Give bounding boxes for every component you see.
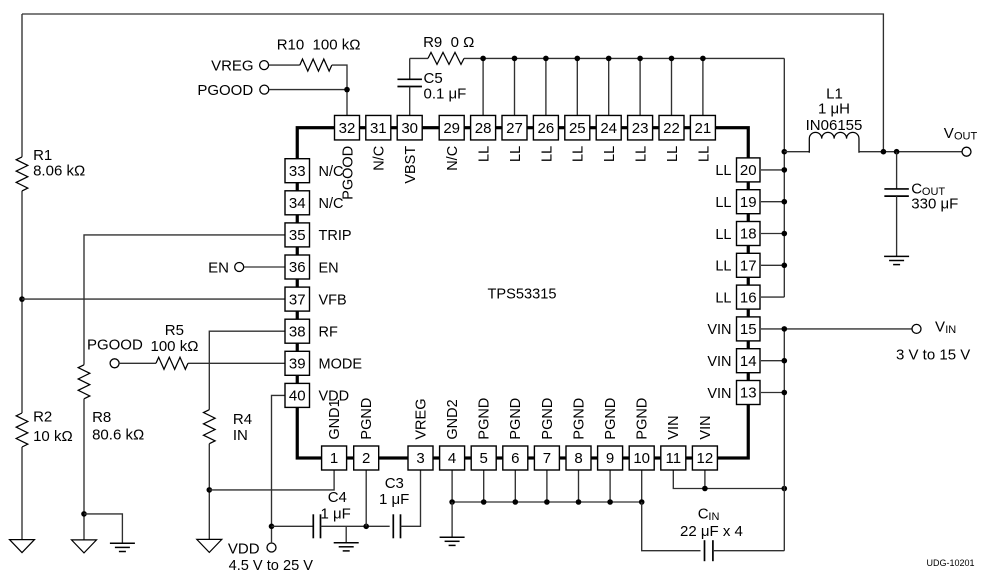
pin 6 PGND (bottom row) bbox=[503, 398, 528, 470]
svg-text:6: 6 bbox=[511, 450, 519, 467]
pin 35 TRIP (left column) bbox=[285, 223, 352, 247]
svg-text:GND2: GND2 bbox=[445, 399, 461, 439]
svg-text:C5: C5 bbox=[424, 70, 443, 87]
svg-text:LL: LL bbox=[696, 146, 712, 162]
svg-text:N/C: N/C bbox=[319, 164, 344, 180]
svg-text:14: 14 bbox=[740, 353, 757, 370]
ground bar-style between C4 and C3 bbox=[345, 526, 347, 542]
svg-text:LL: LL bbox=[715, 195, 731, 211]
svg-text:1: 1 bbox=[330, 450, 338, 467]
svg-text:33: 33 bbox=[289, 163, 306, 180]
pin 23 LL (top row) bbox=[628, 115, 653, 161]
svg-text:4.5 V to 25 V: 4.5 V to 25 V bbox=[229, 558, 314, 574]
pin 7 PGND (bottom row) bbox=[534, 398, 559, 470]
svg-text:40: 40 bbox=[289, 388, 306, 405]
wire left rail R1/R2 divider (VFB net) bbox=[21, 14, 23, 157]
wire pin 5 drop to PGND bus bbox=[483, 470, 485, 502]
svg-text:8: 8 bbox=[574, 450, 582, 467]
svg-text:N/C: N/C bbox=[319, 196, 344, 212]
node LL bus junction pin 25 bbox=[575, 56, 581, 62]
wire PGOOD terminal to pin 32 net bbox=[269, 89, 347, 91]
svg-text:VIN: VIN bbox=[707, 322, 731, 338]
svg-text:C: C bbox=[698, 506, 709, 523]
wire L1 to VOUT terminal bbox=[859, 151, 962, 153]
svg-text:LL: LL bbox=[477, 146, 493, 162]
terminal PGOOD (top left) bbox=[260, 85, 269, 94]
svg-text:PGOOD: PGOOD bbox=[87, 337, 143, 354]
svg-text:23: 23 bbox=[632, 120, 649, 137]
node PGND bus junction pin 6 bbox=[513, 499, 519, 505]
wire TRIP net from pin 35 to R8 bbox=[84, 235, 285, 365]
svg-text:24: 24 bbox=[600, 120, 617, 137]
wire pin 6 drop to PGND bus bbox=[514, 470, 516, 502]
terminal VREG (top left) bbox=[260, 61, 269, 70]
pin 22 LL (top row) bbox=[659, 115, 684, 161]
svg-text:PGOOD: PGOOD bbox=[197, 82, 253, 99]
svg-text:10: 10 bbox=[633, 450, 650, 467]
node VDD-C4 junction bbox=[269, 524, 275, 530]
wire PGND bus to CIN left plate bbox=[642, 502, 701, 551]
svg-text:80.6 kΩ: 80.6 kΩ bbox=[92, 426, 144, 443]
svg-text:PGND: PGND bbox=[477, 398, 493, 440]
svg-text:21: 21 bbox=[695, 120, 712, 137]
resistor R2 bbox=[16, 413, 28, 447]
pin 3 VREG (bottom row) bbox=[408, 399, 433, 470]
node VFB junction on left rail bbox=[19, 296, 25, 302]
node pin 12 junction bbox=[702, 486, 708, 492]
svg-text:VDD: VDD bbox=[228, 541, 260, 558]
terminal PGOOD (left, MODE net) bbox=[110, 359, 119, 368]
svg-text:10 kΩ: 10 kΩ bbox=[33, 428, 73, 445]
svg-text:PGND: PGND bbox=[540, 398, 556, 440]
svg-text:27: 27 bbox=[506, 120, 523, 137]
pin 33 N/C (left column) bbox=[285, 159, 343, 183]
wire MODE net bbox=[119, 362, 156, 364]
svg-text:LL: LL bbox=[715, 163, 731, 179]
pin 11 VIN (bottom row) bbox=[661, 415, 686, 470]
node PGND bus junction pin 8 bbox=[576, 499, 582, 505]
node R4-GND1 junction bbox=[207, 487, 213, 493]
pin 20 LL (right column) bbox=[715, 158, 760, 182]
svg-text:R9 0 Ω: R9 0 Ω bbox=[423, 34, 474, 51]
wire R4 bottom to ground bbox=[208, 444, 210, 540]
resistor R8 bbox=[78, 365, 90, 399]
node VIN bus top junction bbox=[782, 326, 788, 332]
svg-text:PGND: PGND bbox=[603, 398, 619, 440]
terminal VIN bbox=[912, 324, 921, 333]
wire branch to bar ground bbox=[84, 514, 122, 543]
svg-text:PGND: PGND bbox=[571, 398, 587, 440]
pin 18 LL (right column) bbox=[715, 222, 760, 246]
svg-text:34: 34 bbox=[289, 195, 306, 212]
wire LL pin 26 drop from bus bbox=[545, 58, 547, 115]
pin 21 LL (top row) bbox=[690, 115, 715, 161]
ground for R8 (triangle) bbox=[72, 540, 97, 553]
node PGND bus junction pin 4 bbox=[449, 499, 455, 505]
wire pin 7 drop to PGND bus bbox=[546, 470, 548, 502]
svg-text:VIN: VIN bbox=[666, 415, 682, 439]
wire RF net from pin 38 to R4 bbox=[209, 331, 285, 410]
svg-text:VREG: VREG bbox=[211, 57, 254, 74]
capacitor COUT bbox=[896, 152, 898, 189]
pin 37 VFB (left column) bbox=[285, 287, 347, 311]
svg-text:IN06155: IN06155 bbox=[806, 117, 863, 134]
pin 34 N/C (left column) bbox=[285, 191, 343, 215]
svg-text:VFB: VFB bbox=[319, 292, 347, 308]
wire VIN bus vertical bbox=[783, 329, 785, 551]
wire CIN right plate to VIN bus bbox=[713, 550, 784, 552]
svg-text:C3: C3 bbox=[385, 475, 404, 492]
svg-text:28: 28 bbox=[475, 120, 492, 137]
wire pin 13 to VIN bus bbox=[761, 392, 784, 394]
node LL bus junction pin 22 bbox=[669, 56, 675, 62]
wire R8 bottom to grounds bbox=[83, 399, 85, 540]
svg-text:3 V to 15 V: 3 V to 15 V bbox=[896, 347, 970, 364]
svg-text:39: 39 bbox=[289, 356, 306, 373]
node VIN bus / pin 11-12 wire junction bbox=[782, 486, 788, 492]
svg-text:19: 19 bbox=[740, 194, 757, 211]
node LL bus junction pin 26 bbox=[543, 56, 549, 62]
svg-text:R1: R1 bbox=[33, 147, 52, 164]
svg-text:22 μF x 4: 22 μF x 4 bbox=[680, 523, 743, 540]
resistor R9 bbox=[428, 52, 464, 64]
svg-text:R8: R8 bbox=[92, 409, 111, 426]
resistor R4 bbox=[204, 410, 216, 444]
capacitor CIN bbox=[704, 540, 706, 561]
pin 19 LL (right column) bbox=[715, 190, 760, 214]
wire LL pin 17 to vertical bus bbox=[761, 264, 784, 266]
svg-text:R10 100 kΩ: R10 100 kΩ bbox=[277, 37, 361, 54]
svg-text:4: 4 bbox=[448, 450, 456, 467]
node LL bus junction pin 21 bbox=[700, 56, 706, 62]
svg-text:LL: LL bbox=[634, 146, 650, 162]
pin 31 N/C (top row) bbox=[366, 115, 391, 170]
wire pin 2 drop bbox=[365, 470, 367, 526]
svg-text:5: 5 bbox=[480, 450, 488, 467]
capacitor C5 bbox=[409, 58, 411, 79]
svg-text:RF: RF bbox=[319, 325, 338, 341]
svg-text:26: 26 bbox=[538, 120, 555, 137]
wire LL pin 25 drop from bus bbox=[576, 58, 578, 115]
pin 14 VIN (right column) bbox=[707, 349, 760, 373]
svg-text:PGND: PGND bbox=[635, 398, 651, 440]
wire LL bus vertical drop to L1 bbox=[783, 58, 785, 297]
pin 26 LL (top row) bbox=[533, 115, 558, 161]
node LL bus junction pin 23 bbox=[637, 56, 643, 62]
svg-text:IN: IN bbox=[233, 427, 248, 444]
svg-text:9: 9 bbox=[606, 450, 614, 467]
wire LL bus horizontal (R9 to LL drop) bbox=[410, 57, 428, 59]
svg-text:13: 13 bbox=[740, 385, 757, 402]
pin 40 VDD (left column) bbox=[285, 383, 349, 407]
svg-text:PGND: PGND bbox=[359, 398, 375, 440]
wire VIN pins 11/12 to VIN bus bbox=[673, 470, 784, 489]
svg-text:38: 38 bbox=[289, 323, 306, 340]
node PGND bus junction pin 7 bbox=[544, 499, 550, 505]
svg-text:R4: R4 bbox=[233, 411, 252, 428]
svg-text:V: V bbox=[944, 125, 954, 142]
wire LL pin 23 drop from bus bbox=[639, 58, 641, 115]
wire LL pin 28 drop from bus bbox=[482, 58, 484, 115]
resistor R5 bbox=[156, 357, 188, 369]
svg-text:V: V bbox=[935, 319, 945, 336]
svg-text:LL: LL bbox=[539, 146, 555, 162]
node VIN bus pin 14 junction bbox=[782, 358, 788, 364]
svg-text:31: 31 bbox=[370, 120, 387, 137]
svg-text:1 μH: 1 μH bbox=[818, 101, 850, 118]
pin 30 VBST (top row) bbox=[397, 115, 422, 183]
node COUT junction bbox=[894, 149, 900, 155]
node PGND bus junction pin 10 bbox=[639, 499, 645, 505]
svg-text:100 kΩ: 100 kΩ bbox=[151, 338, 199, 355]
wire VDD net to pin 40 bbox=[272, 395, 286, 543]
wire R10 to pin 32 (PGOOD pull-up) bbox=[332, 65, 347, 115]
ground bar-style under pin 4 (GND2) bbox=[440, 536, 465, 538]
wire pin 12 drop bbox=[704, 470, 706, 489]
op-amp U1 TPS53315 outline bbox=[297, 128, 748, 458]
svg-text:EN: EN bbox=[319, 260, 339, 276]
node R8 ground junction bbox=[81, 511, 87, 517]
wire LL pin 18 to vertical bus bbox=[761, 233, 784, 235]
svg-text:IN: IN bbox=[708, 511, 719, 523]
svg-text:37: 37 bbox=[289, 291, 306, 308]
ground for R4 (triangle) bbox=[197, 539, 222, 552]
svg-text:VREG: VREG bbox=[413, 399, 429, 440]
node LL vertical junction pin 17 bbox=[782, 263, 788, 269]
pin 24 LL (top row) bbox=[596, 115, 621, 161]
svg-text:TRIP: TRIP bbox=[319, 228, 352, 244]
svg-text:LL: LL bbox=[715, 290, 731, 306]
ground for R2 (triangle) bbox=[10, 540, 35, 553]
pin 13 VIN (right column) bbox=[707, 381, 760, 405]
wire LL pin 27 drop from bus bbox=[514, 58, 516, 115]
svg-text:TPS53315: TPS53315 bbox=[488, 286, 557, 302]
node PGND bus junction pin 5 bbox=[481, 499, 487, 505]
node LL vertical junction pin 18 bbox=[782, 231, 788, 237]
svg-text:UDG-10201: UDG-10201 bbox=[927, 558, 975, 568]
pin 39 MODE (left column) bbox=[285, 351, 362, 375]
svg-text:30: 30 bbox=[401, 120, 418, 137]
wire pin 9 drop to PGND bus bbox=[609, 470, 611, 502]
svg-text:C4: C4 bbox=[328, 489, 347, 506]
pin 2 PGND (bottom row) bbox=[354, 398, 379, 470]
pin 32 PGOOD (top row) bbox=[335, 115, 360, 199]
wire LL pin 16 to vertical bus bbox=[761, 296, 784, 298]
svg-text:R5: R5 bbox=[165, 322, 184, 339]
ground bar-style for COUT bbox=[884, 255, 909, 257]
pin 17 LL (right column) bbox=[715, 253, 760, 277]
inductor L1 bbox=[784, 151, 809, 153]
capacitor C4 bbox=[312, 514, 314, 538]
svg-text:LL: LL bbox=[508, 146, 524, 162]
pin 9 PGND (bottom row) bbox=[598, 398, 623, 470]
svg-text:16: 16 bbox=[740, 289, 757, 306]
pin 36 EN (left column) bbox=[285, 255, 339, 279]
node PGOOD junction bbox=[344, 87, 350, 93]
terminal VOUT bbox=[962, 147, 971, 156]
pin 25 LL (top row) bbox=[565, 115, 590, 161]
wire LL pin 19 to vertical bus bbox=[761, 201, 784, 203]
svg-text:VIN: VIN bbox=[707, 386, 731, 402]
svg-text:18: 18 bbox=[740, 226, 757, 243]
node VOUT top-rail junction bbox=[881, 149, 887, 155]
wire pin 4 drop to PGND bus bbox=[451, 470, 453, 502]
wire GND1 pin 1 to R4 ground node bbox=[209, 470, 334, 490]
pin 12 VIN (bottom row) bbox=[692, 415, 717, 470]
pin 4 GND2 (bottom row) bbox=[440, 399, 465, 470]
pin 5 PGND (bottom row) bbox=[471, 398, 496, 470]
wire C4 row: VDD node to C4 bbox=[272, 525, 314, 527]
node LL vertical junction pin 20 bbox=[782, 167, 788, 173]
svg-text:LL: LL bbox=[665, 146, 681, 162]
node LL bus junction pin 27 bbox=[512, 56, 518, 62]
pin 1 GND1 (bottom row) bbox=[322, 399, 347, 470]
node LL bus junction pin 28 bbox=[480, 56, 486, 62]
svg-text:29: 29 bbox=[443, 120, 460, 137]
svg-text:35: 35 bbox=[289, 227, 306, 244]
capacitor C3 bbox=[392, 514, 394, 538]
svg-text:N/C: N/C bbox=[445, 146, 461, 171]
pin 16 LL (right column) bbox=[715, 285, 760, 309]
svg-text:0.1 μF: 0.1 μF bbox=[424, 86, 467, 103]
node LL bus junction pin 24 bbox=[606, 56, 612, 62]
svg-text:LL: LL bbox=[571, 146, 587, 162]
pin 38 RF (left column) bbox=[285, 319, 338, 343]
svg-text:11: 11 bbox=[666, 450, 682, 467]
svg-text:GND1: GND1 bbox=[327, 399, 343, 439]
wire C4 to C3 (PGND) bbox=[321, 525, 390, 527]
wire VFB net to pin 37 bbox=[22, 298, 285, 300]
svg-text:12: 12 bbox=[697, 450, 714, 467]
terminal VDD bbox=[267, 543, 276, 552]
svg-text:R2: R2 bbox=[33, 409, 52, 426]
svg-text:20: 20 bbox=[740, 162, 757, 179]
wire GND2 stem to bar ground bbox=[451, 502, 453, 537]
node LL vertical at L1 node bbox=[782, 149, 788, 155]
svg-text:VBST: VBST bbox=[403, 146, 419, 184]
terminal EN bbox=[235, 263, 244, 272]
svg-text:17: 17 bbox=[740, 258, 757, 275]
svg-text:OUT: OUT bbox=[954, 131, 978, 143]
resistor R1 bbox=[16, 157, 28, 191]
wire LL pin 24 drop from bus bbox=[608, 58, 610, 115]
pin 27 LL (top row) bbox=[502, 115, 527, 161]
svg-text:LL: LL bbox=[602, 146, 618, 162]
pin 15 VIN (right column) bbox=[707, 317, 760, 341]
ground bar-style near R8 bbox=[110, 542, 135, 544]
wire EN net bbox=[244, 266, 285, 268]
wire pin 14 to VIN bus bbox=[761, 360, 784, 362]
svg-text:LL: LL bbox=[715, 259, 731, 275]
svg-text:22: 22 bbox=[663, 120, 680, 137]
wire LL pin 22 drop from bus bbox=[671, 58, 673, 115]
node VIN bus pin 13 junction bbox=[782, 390, 788, 396]
svg-text:VIN: VIN bbox=[698, 415, 714, 439]
wire LL pin 20 to vertical bus bbox=[761, 169, 784, 171]
resistor R10 bbox=[300, 59, 332, 71]
svg-text:32: 32 bbox=[339, 120, 356, 137]
node PGND pin2 junction on C4-C3 wire bbox=[363, 524, 369, 530]
svg-text:IN: IN bbox=[945, 324, 956, 336]
svg-text:LL: LL bbox=[715, 227, 731, 243]
wire pin 10 drop to PGND bus bbox=[641, 470, 643, 502]
svg-text:2: 2 bbox=[362, 450, 370, 467]
svg-text:1 μF: 1 μF bbox=[379, 491, 409, 508]
svg-text:EN: EN bbox=[208, 260, 229, 277]
wire VOUT feedback top rail from left rail to VOUT node bbox=[22, 14, 883, 152]
node LL vertical junction pin 19 bbox=[782, 199, 788, 205]
svg-text:25: 25 bbox=[569, 120, 586, 137]
wire PGND bus under pins 4-10 bbox=[452, 501, 642, 503]
svg-text:36: 36 bbox=[289, 259, 306, 276]
svg-text:8.06 kΩ: 8.06 kΩ bbox=[33, 163, 85, 180]
svg-text:330 μF: 330 μF bbox=[911, 196, 958, 213]
svg-text:3: 3 bbox=[416, 450, 424, 467]
pin 10 PGND (bottom row) bbox=[629, 398, 654, 470]
pin 8 PGND (bottom row) bbox=[566, 398, 591, 470]
wire VREG to R10 bbox=[269, 64, 300, 66]
pin 28 LL (top row) bbox=[471, 115, 496, 161]
svg-text:MODE: MODE bbox=[319, 357, 363, 373]
wire pin 8 drop to PGND bus bbox=[578, 470, 580, 502]
svg-text:15: 15 bbox=[740, 321, 757, 338]
svg-text:7: 7 bbox=[543, 450, 551, 467]
wire C3 to pin 3 VREG bbox=[401, 470, 421, 526]
svg-text:VIN: VIN bbox=[707, 354, 731, 370]
svg-text:N/C: N/C bbox=[372, 146, 388, 171]
pin 29 N/C (top row) bbox=[439, 115, 464, 170]
wire pin 15 to VIN terminal bbox=[761, 328, 912, 330]
wire LL pin 21 drop from bus bbox=[702, 58, 704, 115]
svg-text:PGND: PGND bbox=[508, 398, 524, 440]
svg-text:1 μF: 1 μF bbox=[321, 506, 351, 523]
svg-text:VDD: VDD bbox=[319, 389, 350, 405]
node PGND bus junction pin 9 bbox=[607, 499, 613, 505]
